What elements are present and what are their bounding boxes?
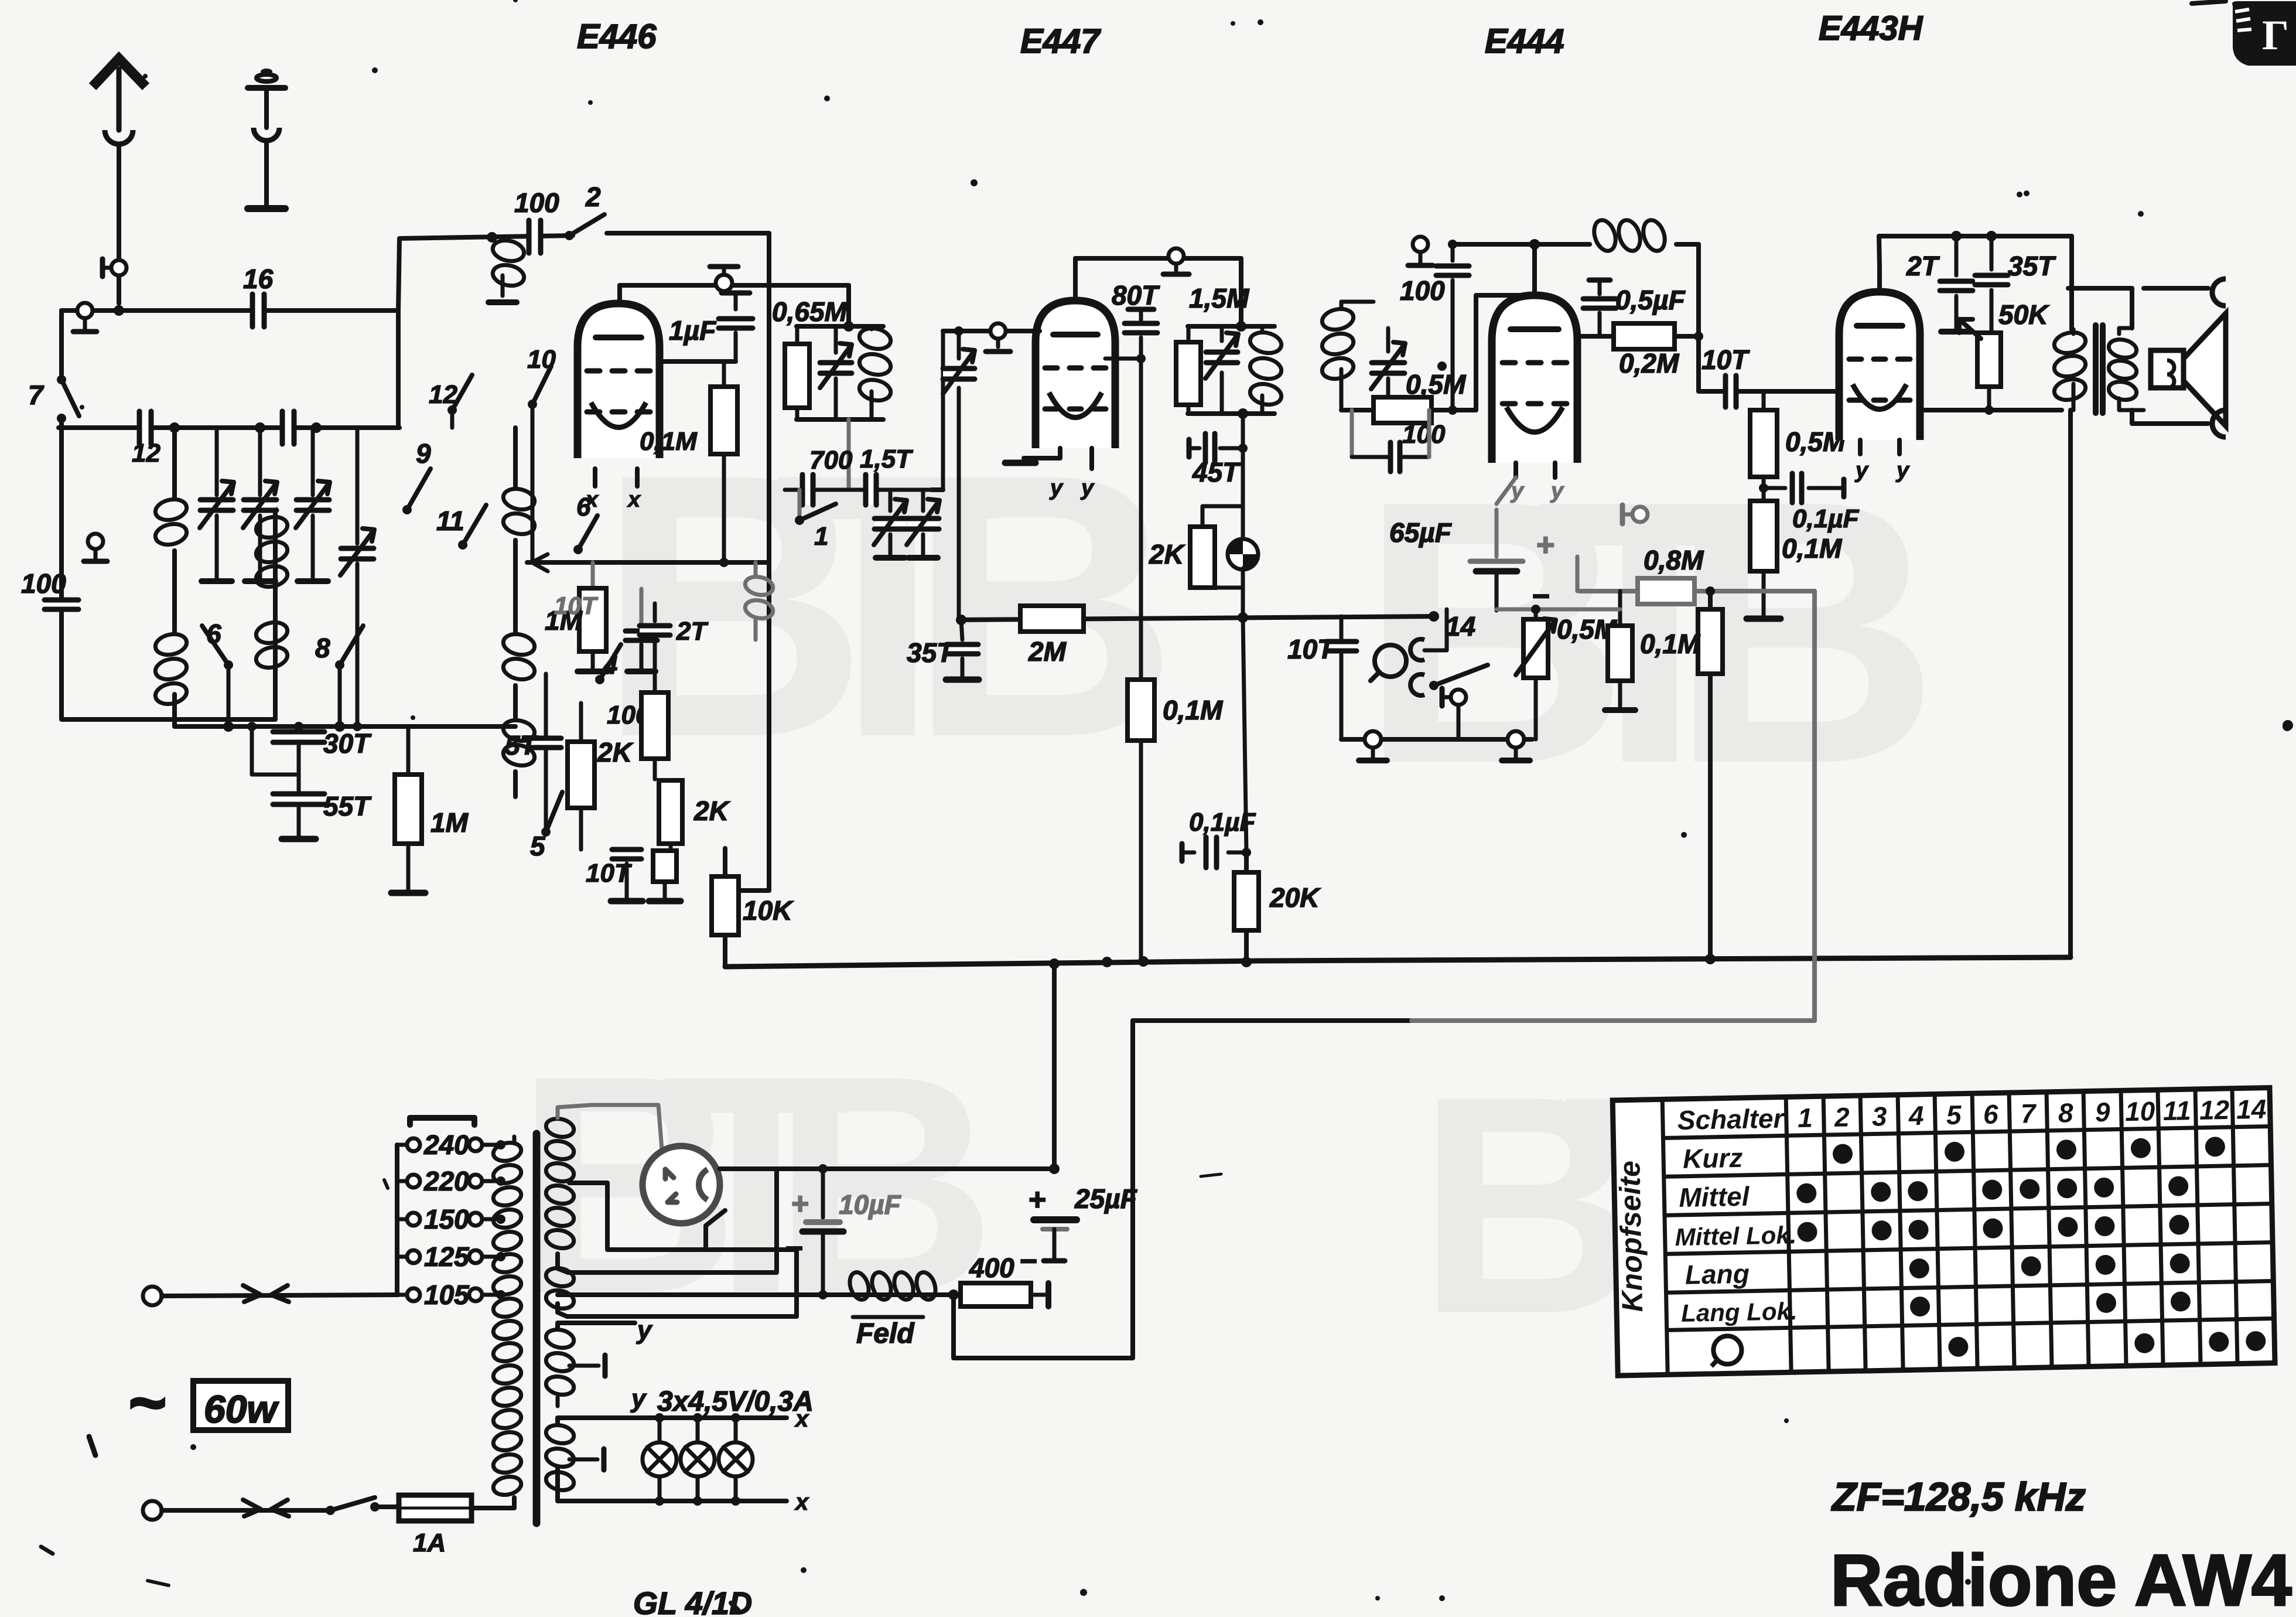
svg-text:10: 10: [2125, 1096, 2156, 1127]
svg-text:E447: E447: [1020, 22, 1101, 60]
svg-text:Radione AW4: Radione AW4: [1830, 1540, 2292, 1617]
svg-text:−: −: [1019, 1244, 1037, 1278]
svg-text:12: 12: [429, 380, 457, 409]
svg-text:9: 9: [2095, 1097, 2110, 1127]
svg-text:GL 4/1D: GL 4/1D: [633, 1586, 752, 1617]
svg-text:y: y: [636, 1316, 653, 1345]
svg-text:y: y: [1080, 476, 1095, 500]
svg-text:700: 700: [809, 446, 853, 475]
svg-text:10T: 10T: [554, 592, 599, 619]
svg-text:6: 6: [576, 493, 591, 521]
svg-text:1,5T: 1,5T: [860, 445, 913, 473]
svg-text:0,2M: 0,2M: [1619, 348, 1680, 378]
svg-text:0,5M: 0,5M: [1406, 369, 1467, 400]
svg-text:30T: 30T: [323, 728, 372, 759]
svg-text:10µF: 10µF: [839, 1189, 902, 1220]
svg-text:4: 4: [1908, 1100, 1924, 1131]
svg-text:6: 6: [206, 619, 221, 649]
svg-text:105: 105: [424, 1280, 470, 1310]
svg-text:10K: 10K: [743, 895, 794, 926]
svg-text:5T: 5T: [505, 730, 539, 760]
svg-text:x: x: [794, 1489, 809, 1515]
svg-text:25µF: 25µF: [1074, 1183, 1138, 1214]
svg-text:5: 5: [530, 831, 546, 861]
svg-text:5: 5: [1946, 1100, 1962, 1131]
svg-text:6: 6: [1983, 1099, 1998, 1129]
svg-text:E446: E446: [577, 18, 657, 56]
svg-text:14: 14: [2236, 1094, 2267, 1125]
svg-text:2: 2: [1834, 1101, 1850, 1132]
svg-text:16: 16: [243, 264, 274, 294]
svg-text:400: 400: [969, 1253, 1014, 1283]
svg-text:2K: 2K: [693, 796, 730, 826]
svg-text:+: +: [1536, 527, 1554, 562]
svg-text:0,1M: 0,1M: [640, 427, 698, 456]
svg-text:125: 125: [424, 1241, 470, 1272]
svg-text:14: 14: [1446, 611, 1475, 642]
svg-text:0,1M: 0,1M: [1163, 695, 1224, 725]
svg-text:Schalter: Schalter: [1677, 1103, 1785, 1135]
svg-text:1,5M: 1,5M: [1189, 283, 1250, 313]
svg-text:−: −: [785, 1231, 802, 1265]
svg-text:12: 12: [2199, 1094, 2230, 1125]
svg-text:y: y: [1854, 458, 1869, 483]
svg-text:100: 100: [1400, 275, 1445, 306]
svg-text:80T: 80T: [1112, 280, 1160, 311]
svg-text:0,65M: 0,65M: [772, 296, 848, 327]
svg-text:y: y: [1049, 476, 1064, 500]
svg-text:100: 100: [514, 187, 559, 218]
svg-text:50K: 50K: [1998, 299, 2049, 330]
svg-text:~: ~: [128, 1367, 165, 1439]
svg-text:ZF=128,5 kHz: ZF=128,5 kHz: [1831, 1475, 2086, 1519]
svg-text:1: 1: [814, 522, 828, 551]
svg-text:45T: 45T: [1192, 457, 1241, 487]
svg-text:0,1M: 0,1M: [1782, 533, 1843, 564]
svg-text:2: 2: [585, 182, 601, 212]
svg-text:60w: 60w: [204, 1387, 279, 1431]
svg-text:9: 9: [416, 438, 431, 469]
svg-text:Kurz: Kurz: [1683, 1142, 1743, 1174]
svg-text:+: +: [791, 1187, 808, 1221]
svg-text:2K: 2K: [597, 737, 634, 767]
svg-text:3: 3: [1872, 1101, 1888, 1131]
svg-text:3x4,5V/0,3A: 3x4,5V/0,3A: [657, 1386, 814, 1417]
svg-text:55T: 55T: [323, 791, 372, 821]
svg-text:y: y: [1550, 479, 1564, 503]
svg-text:0,1M: 0,1M: [1640, 629, 1701, 659]
svg-text:Feld: Feld: [856, 1318, 915, 1349]
svg-text:x: x: [627, 487, 641, 512]
svg-text:20K: 20K: [1269, 882, 1321, 913]
svg-text:8: 8: [2058, 1097, 2073, 1128]
svg-text:Mittel Lok.: Mittel Lok.: [1675, 1221, 1797, 1251]
svg-text:Mittel: Mittel: [1679, 1181, 1750, 1213]
svg-text:35T: 35T: [907, 637, 955, 668]
svg-text:Lang: Lang: [1685, 1258, 1750, 1290]
svg-text:E443H: E443H: [1819, 9, 1923, 47]
svg-text:65µF: 65µF: [1389, 517, 1453, 548]
svg-text:1M: 1M: [430, 807, 469, 838]
svg-text:100: 100: [1402, 420, 1446, 449]
svg-text:0,1µF: 0,1µF: [1189, 808, 1256, 837]
svg-text:E444: E444: [1485, 22, 1564, 60]
svg-text:240: 240: [423, 1130, 469, 1160]
svg-text:150: 150: [424, 1204, 469, 1234]
svg-text:11: 11: [2162, 1095, 2191, 1126]
svg-text:8: 8: [315, 633, 330, 663]
svg-text:+: +: [1028, 1183, 1045, 1217]
svg-text:Γ: Γ: [2262, 12, 2289, 59]
svg-text:2T: 2T: [1906, 251, 1940, 281]
svg-text:y: y: [1895, 458, 1910, 483]
svg-text:7: 7: [2020, 1098, 2037, 1129]
svg-text:100: 100: [21, 568, 66, 599]
svg-text:2M: 2M: [1028, 636, 1067, 667]
svg-text:35T: 35T: [2008, 251, 2056, 281]
svg-text:10T: 10T: [1287, 634, 1336, 664]
svg-text:220: 220: [423, 1166, 469, 1196]
svg-text:0,1µF: 0,1µF: [1792, 504, 1860, 533]
svg-text:0,5µF: 0,5µF: [1615, 285, 1686, 315]
svg-text:2K: 2K: [1149, 539, 1185, 569]
svg-text:10: 10: [527, 345, 556, 374]
svg-text:2T: 2T: [676, 617, 708, 646]
svg-text:1µF: 1µF: [669, 315, 717, 346]
svg-text:10T: 10T: [1701, 344, 1750, 375]
svg-text:1A: 1A: [413, 1529, 446, 1557]
svg-text:7: 7: [28, 380, 45, 410]
svg-text:12: 12: [132, 439, 160, 468]
svg-text:11: 11: [436, 506, 464, 536]
svg-text:y: y: [630, 1384, 647, 1413]
svg-text:0,8M: 0,8M: [1644, 545, 1704, 575]
svg-text:1: 1: [1798, 1103, 1813, 1133]
svg-text:4: 4: [603, 651, 617, 680]
svg-text:Knopfseite: Knopfseite: [1613, 1161, 1649, 1312]
svg-text:Lang Lok.: Lang Lok.: [1681, 1297, 1798, 1327]
